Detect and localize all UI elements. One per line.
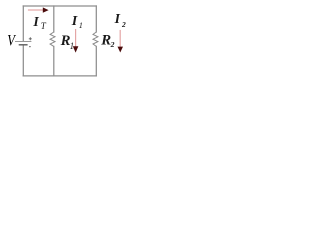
svg-text:2: 2 bbox=[110, 40, 115, 49]
svg-text:I: I bbox=[32, 14, 39, 29]
svg-text:I: I bbox=[114, 11, 121, 26]
svg-text:1: 1 bbox=[79, 21, 83, 30]
svg-text:1: 1 bbox=[70, 41, 75, 51]
svg-text:R: R bbox=[100, 32, 111, 48]
svg-text:I: I bbox=[71, 13, 78, 29]
svg-text:V: V bbox=[7, 34, 16, 50]
svg-text:2: 2 bbox=[121, 20, 126, 29]
svg-text:T: T bbox=[41, 21, 47, 31]
